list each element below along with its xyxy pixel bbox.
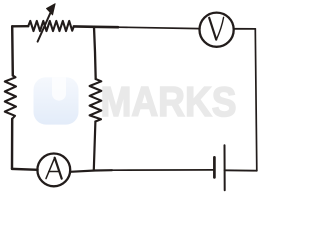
wire: middle vertical bottom section (94, 122, 96, 170)
rheostat arrow (38, 4, 56, 42)
resistor R1 (left branch) (5, 76, 16, 119)
wire: top-left horizontal segment (12, 25, 28, 28)
wire: bottom-left horizontal (12, 168, 38, 171)
wire: bottom middle horizontal (ammeter to battery) (70, 170, 112, 172)
resistor R2 (middle branch) (90, 79, 102, 122)
wire: top-right horizontal (234, 28, 256, 30)
svg-text:MARKS: MARKS (101, 78, 237, 125)
battery B1: negative plate (short) (213, 157, 216, 177)
battery B1: positive plate (long) (224, 145, 226, 190)
wire: bottom-right horizontal (battery to right corner) (225, 169, 257, 171)
wire: middle vertical top section (94, 27, 96, 79)
junction: top node (middle branch tap) (93, 26, 95, 28)
rheostat zigzag element (28, 21, 74, 31)
wire: top middle horizontal (rheostat to voltmeter) (74, 25, 118, 28)
wire: left vertical bottom section (11, 119, 14, 169)
wire: right vertical (255, 29, 256, 171)
ammeter A (37, 154, 70, 187)
junction: bottom node (middle branch to bottom rail) (93, 169, 95, 171)
wire: left vertical top section (11, 26, 14, 75)
voltmeter V (200, 13, 234, 47)
